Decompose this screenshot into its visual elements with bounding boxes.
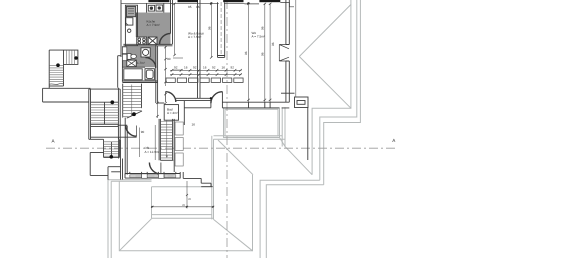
svg-text:A = 7.9m²: A = 7.9m² — [147, 23, 160, 27]
svg-text:96: 96 — [260, 52, 264, 56]
svg-text:1.7m²: 1.7m² — [137, 61, 145, 65]
svg-text:A = 7.5m²: A = 7.5m² — [188, 35, 201, 39]
svg-text:A = 12.9m²: A = 12.9m² — [145, 150, 160, 154]
svg-text:92: 92 — [212, 66, 216, 70]
svg-text:95: 95 — [188, 5, 192, 9]
svg-text:A = 7.5m²: A = 7.5m² — [252, 35, 265, 39]
svg-text:16: 16 — [203, 66, 207, 70]
svg-text:A = 4m²: A = 4m² — [167, 111, 178, 115]
svg-text:90: 90 — [141, 130, 145, 134]
svg-text:96: 96 — [260, 26, 264, 30]
svg-text:96: 96 — [244, 51, 248, 55]
svg-text:m: m — [183, 203, 186, 207]
svg-text:m: m — [189, 197, 192, 201]
svg-text:96: 96 — [208, 26, 212, 30]
svg-text:16: 16 — [196, 5, 200, 9]
svg-text:90: 90 — [167, 57, 171, 61]
svg-text:16: 16 — [192, 123, 196, 127]
svg-text:16: 16 — [184, 66, 188, 70]
svg-text:16: 16 — [222, 66, 226, 70]
svg-text:96: 96 — [271, 42, 275, 46]
svg-text:92: 92 — [231, 66, 235, 70]
svg-text:92: 92 — [174, 66, 178, 70]
svg-text:92: 92 — [193, 66, 197, 70]
